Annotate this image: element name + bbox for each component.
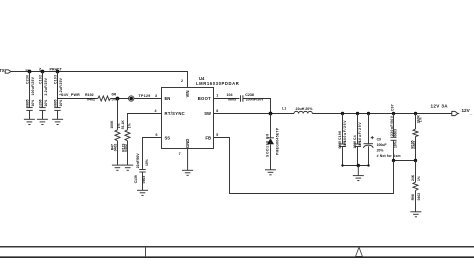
wire input rail to VIN — [11, 72, 188, 88]
svg-text:C139: C139 — [134, 175, 138, 183]
svg-text:100K: 100K — [110, 120, 114, 129]
svg-text:1%: 1% — [128, 123, 132, 128]
svg-text:2.2uF/25V: 2.2uF/25V — [44, 77, 48, 95]
svg-text:1: 1 — [216, 94, 218, 98]
wire FB return — [214, 138, 394, 194]
svg-text:C4: C4 — [353, 135, 357, 140]
svg-text:10%: 10% — [31, 100, 35, 107]
svg-text:10%: 10% — [394, 141, 398, 148]
node Vout junction R195 — [414, 112, 417, 115]
svg-text:VIN: VIN — [185, 91, 190, 98]
testpoint TP129 — [129, 94, 151, 101]
svg-text:51.1K: 51.1K — [121, 120, 125, 130]
svg-text:10%: 10% — [358, 140, 362, 147]
svg-text:R192: R192 — [85, 93, 94, 97]
wire SS — [143, 138, 162, 170]
capacitor C9 (electrolytic) — [364, 114, 401, 166]
svg-text:PR4CT: PR4CT — [50, 68, 63, 72]
svg-text:TP129: TP129 — [139, 94, 151, 98]
inductor L1 — [282, 107, 313, 114]
node input junction 1 — [28, 70, 32, 74]
svg-text:5: 5 — [216, 133, 218, 137]
wire output caps ground bus — [343, 165, 369, 167]
svg-text:100uF/25V: 100uF/25V — [31, 76, 35, 95]
svg-text:104: 104 — [227, 93, 233, 97]
capacitor C192 — [39, 72, 49, 120]
svg-text:22nF/50V: 22nF/50V — [136, 153, 140, 169]
ground under C193 — [52, 119, 63, 124]
resistor R195 — [410, 114, 422, 161]
capacitor C196 — [338, 114, 347, 166]
capacitor C193 — [54, 72, 64, 120]
svg-text:1206: 1206 — [39, 99, 43, 107]
svg-text:0402: 0402 — [87, 97, 95, 101]
svg-text:C238: C238 — [245, 93, 254, 97]
ground under R123 — [122, 165, 133, 170]
ground under R98 — [410, 212, 421, 217]
svg-text:SW: SW — [204, 111, 211, 116]
svg-text:L1: L1 — [282, 107, 286, 111]
ground under C230 — [24, 119, 35, 124]
capacitor C238 — [227, 93, 265, 102]
ground under C139 — [137, 190, 148, 195]
svg-text:0805: 0805 — [54, 99, 58, 107]
capacitor C139 — [134, 153, 149, 191]
ground under C192 — [37, 119, 48, 124]
svg-text:0603: 0603 — [394, 129, 398, 137]
output port 12V — [452, 108, 473, 116]
svg-text:8: 8 — [216, 109, 218, 113]
svg-text:4: 4 — [155, 109, 157, 113]
svg-text:24K: 24K — [411, 174, 415, 181]
wire FB node — [394, 160, 416, 162]
svg-text:1%: 1% — [417, 176, 421, 181]
wire R192 to EN — [110, 98, 161, 100]
node input junction 2 — [41, 70, 45, 74]
diode D8 — [265, 114, 279, 170]
svg-text:6: 6 — [156, 133, 158, 137]
svg-text:24V_PWR: 24V_PWR — [62, 93, 81, 97]
node Vout junction C196 — [341, 112, 344, 115]
svg-text:7: 7 — [179, 152, 181, 156]
svg-text:0R: 0R — [112, 92, 117, 96]
svg-text:GND: GND — [185, 139, 190, 148]
frame zone divider — [145, 247, 147, 258]
wire SW — [214, 113, 295, 115]
svg-text:0402: 0402 — [114, 144, 118, 152]
svg-text:FB: FB — [205, 135, 211, 140]
svg-text:BOOT: BOOT — [198, 96, 211, 101]
svg-text:100uF/25V: 100uF/25V — [343, 120, 347, 143]
svg-text:C193: C193 — [54, 75, 58, 84]
ground under R47 — [112, 165, 123, 170]
svg-text:C9: C9 — [377, 137, 381, 141]
svg-text:C192: C192 — [39, 75, 43, 84]
node Vout junction C97 — [392, 112, 395, 115]
resistor R47 — [110, 99, 121, 166]
svg-text:C230: C230 — [26, 75, 30, 84]
svg-text:0603: 0603 — [228, 97, 236, 101]
capacitor C4 — [353, 114, 362, 166]
wire BOOT — [214, 98, 240, 100]
resistor R98 — [411, 161, 421, 212]
frame triangle marker — [356, 247, 363, 256]
resistor R123 — [121, 120, 131, 165]
input port ATX — [0, 68, 11, 73]
svg-text:C196: C196 — [338, 131, 342, 140]
svg-text:0805: 0805 — [26, 99, 30, 107]
svg-text:10%: 10% — [145, 159, 149, 166]
svg-text:0402: 0402 — [417, 193, 421, 201]
svg-text:SS: SS — [165, 135, 171, 140]
frame border bottom inner — [0, 246, 474, 248]
svg-text:10uF/25V: 10uF/25V — [358, 122, 362, 143]
node Vout junction C4 — [356, 112, 359, 115]
svg-text:LMR16030PDDAR: LMR16030PDDAR — [196, 81, 239, 86]
svg-text:PMEG6045ETP: PMEG6045ETP — [276, 127, 280, 155]
svg-text:0402: 0402 — [124, 144, 128, 152]
node Vout junction C9 — [367, 112, 370, 115]
wire EN branch — [58, 72, 98, 99]
wire output rail — [312, 113, 452, 115]
svg-text:12V 3A: 12V 3A — [431, 104, 449, 109]
svg-text:# Not for Asm: # Not for Asm — [377, 154, 401, 158]
resistor R192 — [85, 92, 117, 101]
ground under D8 — [265, 170, 276, 175]
svg-text:EN: EN — [165, 96, 171, 101]
svg-text:1206: 1206 — [353, 141, 357, 149]
node PR4CT junction — [56, 70, 60, 74]
frame border bottom outer — [0, 256, 474, 258]
ground under U4 — [182, 149, 193, 176]
svg-text:100uF: 100uF — [377, 143, 387, 147]
svg-text:0402: 0402 — [413, 141, 417, 149]
svg-text:RT/SYNC: RT/SYNC — [165, 111, 185, 116]
svg-text:C97: C97 — [391, 104, 395, 111]
svg-text:10%: 10% — [59, 100, 63, 107]
capacitor C97 — [390, 104, 398, 160]
svg-text:10%: 10% — [44, 100, 48, 107]
node ground bus junction — [357, 164, 360, 167]
svg-text:0603: 0603 — [142, 176, 146, 184]
svg-text:_: _ — [469, 110, 473, 115]
IC U4 LMR16030PDDAR — [162, 76, 240, 149]
svg-text:1%: 1% — [419, 117, 423, 122]
node SW junction — [269, 112, 273, 116]
svg-text:10%: 10% — [343, 140, 347, 147]
wire RT/SYNC — [128, 114, 162, 130]
wire C238 to SW node — [243, 99, 271, 114]
node EN junction — [116, 97, 120, 101]
ground under output caps — [353, 176, 364, 181]
svg-text:2: 2 — [181, 79, 183, 83]
svg-text:100nF/50V: 100nF/50V — [246, 97, 264, 101]
svg-text:0805: 0805 — [338, 141, 342, 149]
capacitor C230 — [26, 72, 36, 120]
svg-text:2v: 2v — [38, 67, 42, 71]
svg-text:ATX: ATX — [0, 68, 5, 73]
svg-text:1v: 1v — [25, 68, 29, 72]
svg-text:R98: R98 — [411, 194, 415, 200]
svg-text:SOD128 D8: SOD128 D8 — [265, 133, 269, 157]
svg-text:20%: 20% — [377, 148, 384, 152]
svg-text:3: 3 — [155, 94, 157, 98]
svg-text:22uH 20%: 22uH 20% — [296, 107, 314, 111]
